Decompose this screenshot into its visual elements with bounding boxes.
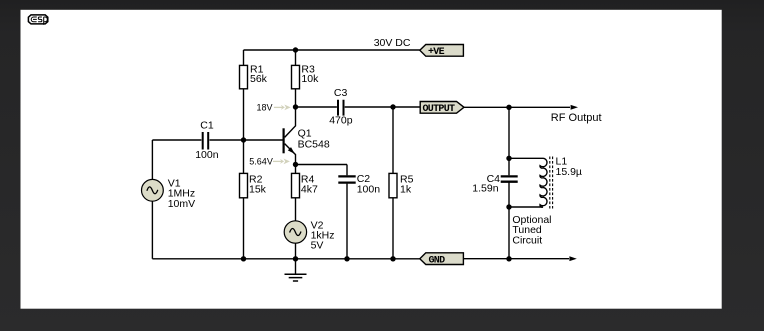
wire C4 bottom to ground (508, 182, 510, 258)
wire base rail left of C1 (152, 139, 201, 141)
resistor R2 (240, 173, 267, 197)
svg-text:100n: 100n (357, 184, 381, 196)
ground rail arrowhead (569, 256, 576, 261)
wire R5 bottom stub (392, 198, 394, 259)
capacitor C4 (472, 173, 517, 194)
junction output branch (506, 105, 511, 110)
wire emitter rail to C2 (296, 164, 348, 166)
inductor L1 (540, 156, 582, 209)
junction tuned circuit bottom (506, 204, 511, 209)
wire ground rail left (152, 258, 420, 260)
wire ground rail right (464, 258, 569, 260)
wire top rail 30V (244, 49, 420, 51)
wire coil bottom horizontal (509, 206, 543, 208)
node 5.64V annotation (249, 157, 290, 167)
svg-text:RF Output: RF Output (551, 112, 602, 124)
flag +VE (420, 45, 464, 59)
wire coil top horizontal (509, 157, 543, 159)
source V2 (284, 219, 334, 251)
svg-text:Circuit: Circuit (512, 235, 542, 247)
wire R4 top stub (295, 165, 297, 174)
svg-text:1k: 1k (400, 184, 412, 196)
wire R1 bottom to base node (243, 89, 245, 140)
note Optional Tuned Circuit (512, 214, 551, 247)
capacitor C3 (329, 87, 353, 127)
junction R5 ground (390, 256, 395, 261)
svg-text:18V: 18V (257, 103, 273, 113)
svg-text:OUTPUT: OUTPUT (423, 104, 456, 115)
svg-text:+VE: +VE (428, 47, 445, 58)
svg-text:30V DC: 30V DC (374, 37, 411, 49)
svg-text:10k: 10k (301, 73, 319, 85)
source V1 (142, 177, 196, 210)
junction collector node (293, 104, 298, 109)
svg-text:15.9µ: 15.9µ (556, 166, 583, 178)
wire R5 top stub (392, 107, 394, 174)
resistor R5 (389, 173, 414, 197)
resistor R3 (292, 64, 320, 89)
wire V1 bottom stub (151, 201, 153, 259)
flag GND (420, 253, 464, 266)
wire V2 bottom stub (295, 243, 297, 259)
svg-text:1.59n: 1.59n (472, 183, 498, 195)
svg-text:10mV: 10mV (168, 198, 195, 210)
junction V2 ground (293, 256, 298, 261)
svg-text:15k: 15k (249, 184, 267, 196)
wire R3 top stub (295, 50, 297, 65)
svg-text:GND: GND (429, 255, 446, 266)
wire V1 top stub (151, 140, 153, 180)
wire R3 bottom to collector node (295, 89, 297, 107)
svg-text:100n: 100n (195, 149, 219, 161)
wire R2 bottom stub (243, 198, 245, 259)
flag OUTPUT (420, 102, 464, 116)
junction R5 top (390, 104, 395, 109)
wire C2 bottom stub (346, 184, 348, 259)
wire R2 top stub (243, 140, 245, 174)
svg-text:470p: 470p (329, 115, 353, 127)
svg-text:C1: C1 (200, 120, 214, 132)
wire C2 top stub (346, 165, 348, 176)
wire collector rail left of C3 (296, 106, 337, 108)
svg-text:5.64V: 5.64V (249, 157, 273, 167)
resistor R1 (240, 64, 268, 89)
svg-text:5V: 5V (311, 240, 324, 252)
svg-text:4k7: 4k7 (301, 184, 318, 196)
junction tuned circuit top (506, 156, 511, 161)
junction tuned circuit ground (506, 256, 511, 261)
node 18V annotation (257, 103, 291, 113)
junction base node (241, 137, 246, 142)
ground (285, 259, 307, 281)
junction emitter node (293, 162, 298, 167)
junction top of R3 (293, 47, 298, 52)
wire tuned circuit top branch (508, 107, 510, 175)
wire collector rail right of C3 (345, 106, 421, 108)
wire base rail right of C1 (210, 139, 283, 141)
wire output rail to RF arrow (464, 106, 570, 108)
junction C2 ground (344, 256, 349, 261)
capacitor C1 (195, 120, 219, 161)
junction R2 bottom (241, 256, 246, 261)
resistor R4 (292, 173, 318, 197)
wire R4 bottom to V2 (295, 198, 297, 221)
svg-text:C3: C3 (334, 87, 348, 99)
wire R1 top stub (243, 50, 245, 65)
transistor Q1 (284, 107, 330, 165)
svg-text:BC548: BC548 (298, 138, 330, 150)
svg-text:56k: 56k (250, 73, 268, 85)
capacitor C2 (338, 173, 380, 196)
RF output arrowhead (571, 105, 578, 110)
ESP logo (28, 15, 47, 25)
